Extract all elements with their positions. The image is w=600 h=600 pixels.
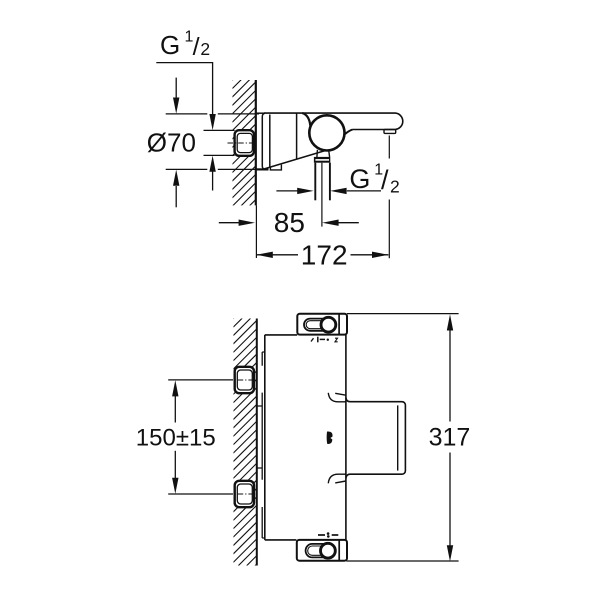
hose connector below knob <box>317 150 330 157</box>
hose pipe centerline <box>321 163 323 227</box>
317 top extension line <box>347 313 459 315</box>
svg-text:85: 85 <box>274 207 305 238</box>
thermostat knob circle <box>309 115 344 150</box>
Ø70 top arrow <box>175 78 177 99</box>
svg-text:G: G <box>349 164 370 194</box>
top module slot inner contour <box>306 321 333 329</box>
escutcheon (wall flange, side view) <box>262 113 265 169</box>
hose pipe left edge <box>314 163 316 201</box>
body front face line <box>296 113 298 158</box>
317 dim line top arrow <box>449 330 451 422</box>
bottom module slot inner contour <box>308 546 333 555</box>
escutcheon bottom edge <box>256 168 269 170</box>
wall hatching (plan view) <box>0 271 550 571</box>
body right edge <box>345 335 347 540</box>
label G1/2 (top) <box>160 29 210 61</box>
fitting bottom extension line <box>204 154 235 156</box>
bottom module divider <box>338 540 340 561</box>
bottom module slot (stadium) <box>306 544 336 558</box>
wall face line (side view) <box>255 80 257 205</box>
markings above bottom module <box>318 532 338 537</box>
lever bottom line <box>353 129 396 131</box>
wall extension line down to 172 dimension <box>255 205 257 258</box>
150 dim line bottom arrow <box>174 451 176 478</box>
317 dim line bottom arrow <box>449 453 451 546</box>
cone bottom slant line <box>264 150 326 169</box>
svg-text:Ø70: Ø70 <box>147 128 196 158</box>
85 right arrow <box>338 222 359 224</box>
leader line from G1/2 label <box>156 63 212 115</box>
left fillet body to knob <box>302 113 310 126</box>
fitting up arrow shaft <box>212 172 214 191</box>
leader down arrow to fitting top <box>209 114 215 130</box>
172 dimension line left segment with arrow <box>256 254 298 256</box>
G1/2 wall fitting outer square (side view) <box>235 130 254 156</box>
escutcheon top connect line <box>256 112 265 114</box>
faucet top line and lever with rounded end <box>264 113 403 129</box>
fitting centerline (dash-dot) <box>228 142 257 144</box>
escutcheon right edge <box>269 115 271 169</box>
label G1/2 (bottom, hose) <box>349 162 399 197</box>
172 dimension line right segment with arrow <box>351 254 389 256</box>
svg-text:2: 2 <box>390 177 400 197</box>
fitting top extension line <box>204 129 235 131</box>
G1/2 hose left arrow <box>276 190 297 192</box>
317 bottom extension line <box>346 560 458 562</box>
knob inner line <box>397 405 399 470</box>
wall union fitting top (plan) <box>227 367 257 393</box>
markings under top module <box>311 337 338 343</box>
fitting cap curve at wall <box>253 136 255 150</box>
bottom module toggle circle <box>321 543 336 558</box>
85 left arrow <box>219 222 239 224</box>
knob (plan view) <box>346 398 406 479</box>
body top edge <box>265 334 297 336</box>
top hook clip <box>328 393 346 402</box>
150 dim line top arrow <box>174 396 176 423</box>
svg-text:172: 172 <box>301 239 348 270</box>
hose nut <box>314 157 330 163</box>
svg-text:/: / <box>381 165 389 195</box>
svg-text:2: 2 <box>200 39 210 59</box>
body left edge <box>264 335 266 540</box>
back plate line segments <box>261 352 263 538</box>
wall face line (plan view) <box>256 319 258 566</box>
wall hatching (side view) <box>94 0 554 210</box>
top module divider <box>338 314 340 335</box>
back plate jogs <box>257 352 265 538</box>
right fillet knob to lever <box>344 130 352 135</box>
top outlet module <box>297 314 347 335</box>
fitting inner square <box>237 133 252 152</box>
Ø70 bottom arrow <box>175 186 177 207</box>
Ø70 top extension line <box>166 113 259 115</box>
bottom hook clip <box>328 474 346 483</box>
bottom outlet module <box>297 540 347 561</box>
svg-text:G: G <box>160 30 180 60</box>
wall union fitting bottom (plan) <box>227 481 257 507</box>
top module slot (stadium) <box>304 319 335 331</box>
step notch under cone <box>270 165 281 170</box>
Ø70 bottom extension line <box>166 168 259 170</box>
fitting up arrow <box>209 156 215 172</box>
svg-text:317: 317 <box>429 423 471 451</box>
172 right extension line (dashed, from outlet) <box>388 136 390 259</box>
150 bottom extension line <box>168 493 233 495</box>
svg-text:150±15: 150±15 <box>136 425 216 452</box>
svg-text:/: / <box>193 33 200 61</box>
150 top extension line <box>168 379 233 381</box>
hose pipe right edge <box>329 163 331 201</box>
body bottom edge <box>265 539 297 541</box>
outlet spout cap <box>384 130 396 134</box>
top module toggle circle <box>321 317 336 332</box>
safestop button blob <box>327 432 333 444</box>
G1/2 hose right arrow <box>347 190 381 192</box>
